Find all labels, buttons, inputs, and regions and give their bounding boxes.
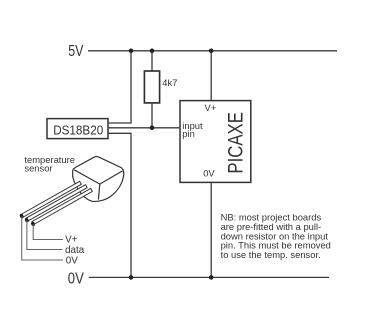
svg-text:0V: 0V (66, 255, 78, 266)
wire: PICAXE 0V to 0V rail (210, 182, 212, 277)
node: junction 5V rail / resistor (150, 49, 155, 54)
5V rail (88, 50, 337, 52)
node: junction data line / resistor / input pin (150, 126, 155, 131)
svg-text:pin: pin (182, 128, 195, 139)
svg-text:to use the temp. sensor.: to use the temp. sensor. (221, 249, 321, 260)
sensor lead pin 0V (32, 188, 92, 224)
svg-text:0V: 0V (68, 270, 85, 287)
sensor lead pin V+ (21, 181, 81, 217)
lead label line and text "V+" (33, 224, 63, 240)
wire: 5V rail down to resistor top (151, 51, 153, 71)
wire: 5V rail to PICAXE V+ (210, 51, 212, 101)
node: junction 0V rail / DS18B20 0V (129, 275, 134, 280)
lead tip dot V+ (19, 213, 25, 219)
svg-text:4k7: 4k7 (162, 77, 177, 88)
svg-text:sensor: sensor (24, 162, 52, 173)
sensor lead pin data (26, 185, 87, 222)
lead label line and text "data" (27, 220, 62, 249)
node: junction 5V rail / PICAXE V+ (209, 49, 214, 54)
sensor IC box DS18B20 (47, 119, 108, 139)
svg-text:V+: V+ (205, 102, 217, 113)
node: junction 0V rail / PICAXE 0V (209, 275, 214, 280)
svg-text:PICAXE: PICAXE (223, 112, 247, 173)
svg-text:5V: 5V (68, 43, 84, 60)
resistor 4k7 pull-up (144, 71, 159, 103)
0V rail (89, 276, 329, 278)
wire: DS18B20 data to PICAXE input pin (108, 127, 180, 129)
IC U1 PICAXE box (180, 101, 251, 183)
svg-text:0V: 0V (203, 167, 215, 178)
lead label line and text "0V" (22, 216, 63, 260)
lead tip dot data (24, 217, 30, 223)
svg-text:DS18B20: DS18B20 (53, 122, 103, 137)
transistor-style TO-92 sensor body (73, 157, 124, 202)
svg-text:data: data (65, 245, 85, 256)
wire: DS18B20 0V pin down to 0V rail (108, 133, 131, 277)
node: junction 5V rail / DS18B20 V+ (129, 49, 134, 54)
wire: resistor bottom to input junction (151, 103, 153, 128)
wire: 5V rail to DS18B20 V+ pin (108, 51, 131, 123)
NB note text (221, 212, 331, 260)
lead tip dot 0V (30, 221, 36, 227)
